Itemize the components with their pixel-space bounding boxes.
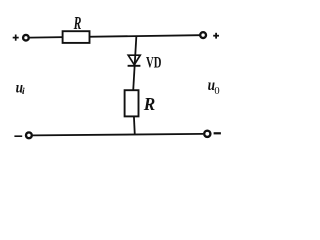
resistor R2 (shunt, vertical) [125,90,139,116]
minus bottom-left [14,135,22,137]
wire bottom rail [33,134,204,136]
svg-text:R: R [73,13,81,33]
terminal bottom-left [26,132,32,138]
svg-text:i: i [22,87,25,97]
plus top-left [13,35,19,41]
minus bottom-right [214,132,221,134]
label u_i (input voltage) [16,80,25,97]
svg-text:R: R [143,94,155,114]
svg-text:VD: VD [146,55,161,72]
wire top (input + rail to output +) [29,35,199,37]
wire resistor R2 to bottom rail [133,116,136,135]
resistor R1 (series, horizontal) [63,31,90,43]
wire vertical from top rail through diode to resistor R2 [133,36,136,91]
plus top-right [213,33,219,39]
terminal top-right [200,32,206,38]
terminal top-left [23,35,29,41]
diode VD (anode top, cathode bottom) [128,55,141,66]
terminal bottom-right [204,131,210,137]
svg-text:0: 0 [214,86,219,97]
label u_0 (output voltage) [208,77,220,97]
